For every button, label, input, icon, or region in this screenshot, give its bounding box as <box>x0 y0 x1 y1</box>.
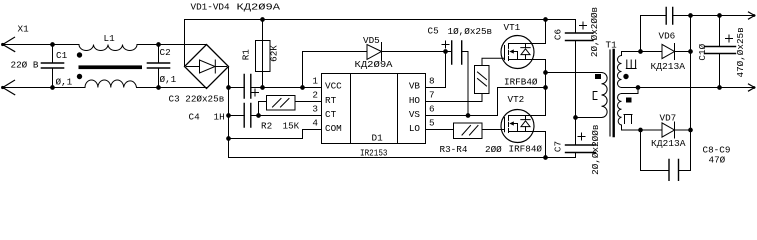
svg-text:IRFB4Ø: IRFB4Ø <box>504 77 538 88</box>
svg-text:2Ø,Øх2ØØв: 2Ø,Øх2ØØв <box>589 7 600 57</box>
svg-text:VT1: VT1 <box>504 22 521 33</box>
svg-text:5: 5 <box>429 118 435 129</box>
svg-text:VB: VB <box>409 81 421 92</box>
svg-text:D1: D1 <box>372 132 384 143</box>
svg-text:C4: C4 <box>189 112 201 123</box>
svg-text:T1: T1 <box>606 40 618 51</box>
svg-text:VS: VS <box>409 109 421 120</box>
svg-text:IR2153: IR2153 <box>360 148 388 159</box>
svg-text:2: 2 <box>312 90 318 101</box>
svg-text:47Ø: 47Ø <box>709 155 726 166</box>
svg-text:HO: HO <box>409 95 421 106</box>
svg-text:VD7: VD7 <box>660 113 677 124</box>
svg-text:C3 22Øх25в: C3 22Øх25в <box>169 94 225 105</box>
svg-text:15К: 15К <box>283 121 300 132</box>
svg-text:1: 1 <box>312 76 318 87</box>
svg-text:8: 8 <box>429 75 435 86</box>
svg-text:Ø,1: Ø,1 <box>56 77 73 88</box>
svg-text:VD1-VD4: VD1-VD4 <box>191 2 230 13</box>
svg-text:2Ø,Øх2ØØв: 2Ø,Øх2ØØв <box>590 125 601 175</box>
svg-text:X1: X1 <box>18 24 30 35</box>
svg-text:C5: C5 <box>428 26 439 37</box>
svg-text:22Ø В: 22Ø В <box>11 60 39 71</box>
svg-text:C7: C7 <box>552 141 563 152</box>
svg-text:VCC: VCC <box>325 81 342 92</box>
svg-text:C1: C1 <box>56 50 68 61</box>
svg-text:L1: L1 <box>104 33 116 44</box>
svg-text:6: 6 <box>429 104 435 115</box>
svg-text:R3-R4: R3-R4 <box>440 144 468 155</box>
svg-text:RT: RT <box>325 95 337 106</box>
svg-text:Ø,1: Ø,1 <box>160 74 177 85</box>
svg-text:C6: C6 <box>552 29 563 40</box>
svg-text:7: 7 <box>429 90 435 101</box>
svg-text:62К: 62К <box>269 45 280 62</box>
svg-text:COM: COM <box>325 123 342 134</box>
svg-text:LO: LO <box>409 123 421 134</box>
svg-text:CT: CT <box>325 109 337 120</box>
svg-text:4: 4 <box>312 118 318 129</box>
svg-text:R2: R2 <box>261 121 272 132</box>
svg-text:3: 3 <box>312 104 318 115</box>
svg-text:C1Ø: C1Ø <box>697 43 708 60</box>
svg-text:КД2Ø9А: КД2Ø9А <box>237 2 281 13</box>
svg-text:47Ø,Øх25в: 47Ø,Øх25в <box>735 27 746 77</box>
svg-text:2ØØ: 2ØØ <box>485 144 502 155</box>
svg-text:VD6: VD6 <box>659 31 676 42</box>
svg-text:R1: R1 <box>240 49 251 61</box>
svg-text:C2: C2 <box>160 47 171 58</box>
svg-text:IRF84Ø: IRF84Ø <box>509 144 543 155</box>
svg-text:VD5: VD5 <box>363 35 380 46</box>
svg-text:КД2Ø9А: КД2Ø9А <box>355 59 393 70</box>
svg-text:1Ø,Øх25в: 1Ø,Øх25в <box>448 26 493 37</box>
svg-text:1Н: 1Н <box>214 112 225 123</box>
svg-text:КД213А: КД213А <box>651 138 686 149</box>
svg-text:VT2: VT2 <box>508 94 525 105</box>
svg-text:КД213А: КД213А <box>651 61 686 72</box>
